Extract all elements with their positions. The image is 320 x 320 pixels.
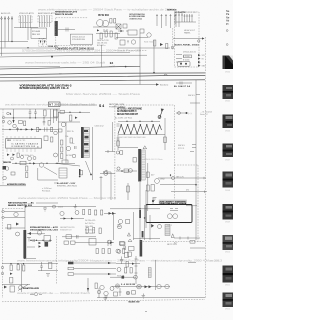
- box: [10, 286, 15, 292]
- svg-text:Fernbed.: Fernbed.: [42, 190, 51, 193]
- svg-text:IC DEFLECTION 103: IC DEFLECTION 103: [11, 146, 36, 148]
- box comp2: [54, 110, 59, 117]
- comp box: [44, 236, 51, 242]
- photo 7: [223, 235, 234, 254]
- bus line 5: [0, 75, 205, 77]
- vert x150: [149, 215, 151, 240]
- tick y262: [188, 262, 196, 264]
- box: [126, 219, 130, 223]
- transistor Q5: [61, 122, 65, 126]
- wire y218.5: [60, 218, 84, 220]
- section left col bits: [117, 124, 120, 126]
- vert x140: [139, 182, 141, 240]
- IC box IC201: [128, 30, 137, 35]
- photo 8: [223, 266, 234, 287]
- tick marks: [135, 259, 138, 273]
- resistor R16: [115, 33, 117, 39]
- wire bus: [93, 26, 120, 28]
- transistor Q6: [66, 146, 70, 150]
- T602 winding: [142, 150, 146, 180]
- bits around T604: [117, 239, 132, 253]
- wire y238: [174, 237, 200, 240]
- comp phi: [97, 288, 100, 298]
- cap C2 + diode: [34, 109, 37, 118]
- diode D201: [118, 30, 124, 32]
- section line upper: [55, 104, 97, 106]
- svg-text:CHASSIS 29504: CHASSIS 29504: [129, 18, 143, 21]
- resistor R12: [114, 19, 116, 24]
- box IC: [89, 239, 96, 246]
- connector circle: [171, 46, 174, 49]
- junction dot: [25, 206, 27, 208]
- ground pair: [142, 294, 146, 299]
- wire y118: [5, 117, 58, 119]
- svg-text:29508: 29508: [225, 190, 230, 192]
- transistor Q9: [14, 212, 18, 216]
- diode pair D613 D614: [109, 212, 116, 215]
- vertical x118: [117, 135, 119, 151]
- transistor: [100, 285, 104, 289]
- wire bottom row: [134, 238, 161, 240]
- vert x13.5: [13, 109, 15, 123]
- vert x113.5: [113, 214, 115, 240]
- cluster small: [59, 129, 63, 132]
- resistor R11: [110, 19, 112, 24]
- svg-text:BL 364/07 3A: BL 364/07 3A: [174, 85, 190, 88]
- diode D2: [31, 128, 34, 130]
- tick y151: [190, 151, 194, 153]
- IC pins bottom: [7, 148, 35, 152]
- svg-text:Seite 12: Seite 12: [200, 113, 208, 116]
- svg-text:BASIS-PANEL 29504: BASIS-PANEL 29504: [175, 44, 200, 47]
- svg-text:IC 6A7890 TDA3653: IC 6A7890 TDA3653: [11, 143, 39, 146]
- delta small: [127, 233, 130, 236]
- photo 2: [223, 85, 234, 103]
- vert x128: [127, 183, 129, 200]
- wire y178: [158, 177, 177, 179]
- connector circles left: [2, 116, 4, 118]
- svg-text:5705/3te0500e0a0er/296-6 0540/: 5705/3te0500e0a0er/296-6 0540/ElKonTaKT …: [22, 49, 142, 52]
- bus line 2: [0, 55, 147, 57]
- svg-text:29504: 29504: [225, 72, 230, 74]
- comps: [108, 240, 111, 246]
- box right of IC: [44, 136, 48, 141]
- res stack: [61, 140, 63, 145]
- dark bit on wire: [122, 276, 125, 279]
- transformer T601 winding: [84, 128, 90, 158]
- svg-text:29504-102.04: 29504-102.04: [72, 37, 86, 39]
- box comp: [132, 291, 136, 294]
- svg-text:29507: 29507: [225, 160, 230, 162]
- bus line 3: [0, 67, 140, 70]
- svg-text:R612 1k: R612 1k: [67, 131, 74, 133]
- wire from box: [186, 205, 197, 207]
- transistor Q601: [60, 211, 64, 215]
- ground sym: [74, 204, 77, 209]
- svg-text:Mon 2013: Mon 2013: [210, 260, 220, 262]
- wire from bar bottom: [25, 257, 36, 259]
- junction dots: [30, 240, 50, 241]
- wire stub: [176, 55, 182, 63]
- transformer T603 core dark: [23, 230, 26, 259]
- vertical wires left of transformer: [59, 112, 67, 163]
- svg-text:Monitor-Service 29504 — Stadt.: Monitor-Service 29504 — Stadt.Pass: [66, 93, 141, 96]
- wire y286.6 mid: [112, 286, 170, 288]
- res x18: [17, 265, 19, 271]
- diode chain zigzag: [118, 125, 162, 134]
- component with dot: [152, 198, 154, 205]
- svg-text:www.manualslib.de — 0910 Ford: www.manualslib.de — 0910 Ford Fach: [17, 292, 91, 295]
- svg-text:29506: 29506: [225, 131, 230, 133]
- wire hop: [164, 74, 167, 76]
- IC pins top: [7, 136, 35, 139]
- diode D611: [64, 217, 67, 219]
- dots on y121: [126, 121, 152, 122]
- section left dashed border: [114, 105, 116, 200]
- svg-text:29509: 29509: [225, 222, 230, 224]
- cap C1: [29, 109, 32, 118]
- diode: [10, 273, 13, 275]
- wire top: [36, 202, 58, 204]
- svg-text:29512: 29512: [225, 309, 230, 311]
- box on wire: [66, 235, 72, 239]
- svg-text:35 W 010: 35 W 010: [98, 13, 110, 17]
- svg-text:PANEL: PANEL: [184, 32, 192, 35]
- svg-text:AUDIO-PL: AUDIO-PL: [1, 12, 12, 15]
- dark box comp: [45, 242, 49, 247]
- box comp2: [128, 252, 132, 256]
- extra cap: [75, 146, 77, 149]
- res row: [96, 249, 98, 254]
- diode dark: [4, 286, 7, 289]
- switch box S601: [146, 205, 192, 223]
- wire y240 row: [30, 239, 52, 241]
- vertical x165: [164, 118, 166, 150]
- dashed mains wire: [140, 241, 205, 243]
- svg-text:5: 5: [170, 175, 171, 177]
- svg-text:DEGAUSSING COIL L601: DEGAUSSING COIL L601: [30, 229, 59, 232]
- wire with arrow: [173, 37, 205, 42]
- top row cap: [124, 246, 126, 250]
- circle on wire277: [134, 275, 138, 279]
- wires from pins down: [0, 22, 50, 56]
- switch contact marks: [170, 209, 178, 211]
- box R201: [140, 29, 144, 33]
- svg-text:R204 T202: R204 T202: [144, 42, 153, 44]
- spark gap F601: [158, 109, 164, 119]
- stub right: [27, 238, 35, 248]
- diode dark pair: [145, 285, 152, 288]
- ground sym: [127, 41, 129, 43]
- row box: [19, 121, 23, 124]
- svg-text:1k 220u 47k: 1k 220u 47k: [85, 220, 95, 222]
- vert x133.5: [133, 212, 135, 240]
- wires upper mid board: [116, 31, 170, 48]
- junction dots bus: [11, 41, 53, 58]
- wire y191.5: [171, 191, 207, 193]
- res on chain: [147, 172, 150, 178]
- transistor Q602: [75, 211, 79, 215]
- circle comp right: [108, 240, 112, 244]
- res vert: [126, 262, 128, 268]
- svg-text:Bordnetz: Bordnetz: [160, 84, 168, 87]
- svg-text:4u7 2k2 1n: 4u7 2k2 1n: [85, 223, 94, 225]
- svg-text:29511: 29511: [225, 285, 230, 287]
- top row box: [129, 247, 135, 251]
- tick: [54, 182, 58, 184]
- wire y122: [58, 121, 80, 123]
- comp: [8, 225, 11, 230]
- triangle top: [143, 146, 147, 149]
- small box connector: [62, 160, 68, 163]
- bus line 3b: [0, 66, 60, 68]
- box outline right: [38, 168, 58, 180]
- ground: [153, 198, 157, 201]
- section dashed right: [173, 105, 175, 200]
- board dashed right edge: [56, 236, 58, 284]
- wire main: [26, 206, 96, 208]
- svg-text:FERNBEDIENUNGSPLATTE: FERNBEDIENUNGSPLATTE: [55, 11, 77, 14]
- svg-text:29505: 29505: [225, 101, 230, 103]
- svg-text:(→): (→): [188, 113, 192, 115]
- res2: [130, 268, 132, 274]
- svg-text:S 4: S 4: [99, 104, 104, 108]
- dark seg on x140: [139, 210, 141, 218]
- box on wire: [20, 161, 26, 165]
- wire y277: [110, 276, 136, 278]
- cap: [77, 235, 79, 239]
- triangle comp: [103, 170, 111, 174]
- arrow comp: [12, 120, 14, 123]
- board dashed top edge: [2, 208, 24, 210]
- svg-text:D603: D603: [58, 207, 64, 209]
- mains highlight band: [159, 200, 187, 205]
- vert x120: [119, 288, 122, 296]
- svg-text:www.freeservicemanuals.info —: www.freeservicemanuals.info — 295 04 Sta…: [25, 62, 106, 65]
- section dashed top: [115, 104, 174, 106]
- transformer T1 core: [55, 21, 58, 36]
- vertical wire x101: [101, 45, 103, 67]
- res box on x165: [164, 137, 167, 143]
- res on chain2: [147, 185, 150, 191]
- stub: [105, 150, 115, 153]
- svg-text:REL 101: REL 101: [32, 34, 41, 36]
- hatched res: [148, 268, 151, 278]
- resistor R14: [105, 31, 107, 37]
- transistor Q3: [39, 163, 43, 167]
- pin circle5: [170, 175, 175, 180]
- svg-text:NT 202: NT 202: [49, 105, 60, 107]
- svg-text:ENTMAGNETISIERUNG — AUTO: ENTMAGNETISIERUNG — AUTO: [30, 226, 58, 229]
- vert x136: [135, 256, 137, 284]
- vertical wire x196: [195, 80, 197, 240]
- svg-text:E4: E4: [110, 61, 114, 65]
- comp small: [190, 241, 195, 244]
- comp bits: [11, 172, 15, 175]
- component in right board: [178, 62, 191, 67]
- photo 3: [223, 115, 234, 133]
- wire under zigzag: [118, 134, 165, 136]
- section bottom line: [0, 185, 26, 187]
- vert wire x101: [100, 176, 103, 200]
- tick: [145, 311, 147, 313]
- diode D6: [75, 117, 78, 119]
- wire to bord with arrow: [100, 83, 159, 85]
- wire y213.4: [104, 212, 116, 214]
- circle comp: [53, 205, 56, 208]
- pins row mid: [156, 14, 176, 28]
- component row above wire: [176, 82, 192, 85]
- section border right dashed: [197, 165, 199, 242]
- transformer T601 core: [81, 127, 84, 158]
- svg-text:35GB 010: 35GB 010: [48, 46, 59, 48]
- res R612: [89, 210, 91, 215]
- extra dots wire163: [15, 163, 57, 164]
- svg-text:SW 0.5: SW 0.5: [188, 95, 196, 97]
- component xbox: [116, 24, 121, 29]
- diode dark: [16, 223, 19, 226]
- row res2: [48, 121, 50, 126]
- lamp X: [137, 284, 142, 289]
- chain right of T602: [147, 163, 149, 211]
- pin circle 1: [7, 112, 11, 115]
- right board outline: [174, 12, 199, 67]
- bus line 6: [0, 80, 205, 81]
- plug P2: [43, 39, 46, 47]
- svg-text:= 1 2: = 1 2: [168, 225, 172, 227]
- box R202: [120, 40, 125, 45]
- photo 6: [223, 204, 234, 224]
- svg-text:REMOTE BOARD: REMOTE BOARD: [55, 13, 73, 16]
- photo 4: [223, 144, 234, 162]
- svg-text:C516 2n2: C516 2n2: [95, 126, 105, 128]
- switch circle B: [173, 214, 178, 219]
- NT label box: [49, 102, 61, 107]
- sub board box: [70, 34, 92, 44]
- board left dashed edge: [2, 109, 4, 185]
- diode D5: [33, 162, 36, 164]
- row cap: [43, 119, 46, 125]
- wire y270.7: [38, 270, 58, 272]
- vert x88 arrow: [87, 278, 89, 292]
- marks near border: [117, 138, 120, 140]
- res: [123, 249, 125, 254]
- IC1 block: [6, 139, 42, 149]
- switch circle A: [167, 214, 172, 219]
- svg-text:INTERFACE(BOARD) 195/175 I 6L: INTERFACE(BOARD) 195/175 I 6L-3: [20, 87, 70, 90]
- comp box: [80, 171, 83, 175]
- right pins: [175, 13, 193, 27]
- resistor R204: [166, 44, 168, 49]
- svg-text:NETZSCHALTER — AC: NETZSCHALTER — AC: [8, 201, 35, 204]
- stub y103: [190, 102, 200, 104]
- extra res: [70, 138, 72, 143]
- wire y236.8: [62, 236, 96, 238]
- vertical dashed x205: [205, 37, 207, 298]
- svg-text:BC548 1n: BC548 1n: [97, 45, 105, 47]
- multi pin block: [59, 168, 67, 178]
- junction dots y118: [13, 117, 45, 118]
- left connector circles: [2, 210, 4, 212]
- section border bottom dashed: [174, 164, 198, 166]
- wire y33.5: [96, 33, 120, 35]
- photo 5: [223, 172, 234, 193]
- box comp: [49, 263, 52, 269]
- svg-text:10k 220k: 10k 220k: [85, 233, 93, 235]
- svg-text:2.4 B222M: 2.4 B222M: [121, 283, 135, 286]
- resistor R15: [110, 31, 112, 37]
- plug P1: [39, 39, 42, 47]
- wire: [27, 233, 45, 235]
- row res: [24, 121, 26, 126]
- extra circle: [72, 154, 76, 158]
- cap row129: [45, 127, 48, 131]
- res: [125, 268, 127, 274]
- svg-text:D601 D602 D603 D604 D605 D606: D601 D602 D603 D604 D605 D606: [119, 137, 146, 139]
- circle comp: [116, 249, 120, 253]
- wire y163: [12, 162, 75, 164]
- small marks: [118, 225, 121, 227]
- diode: [132, 263, 135, 265]
- relay box K1: [31, 28, 46, 38]
- svg-text:B+ ADJUST • 103V: B+ ADJUST • 103V: [57, 182, 76, 185]
- svg-text:www.elektrotanya.com 29504 Sta: www.elektrotanya.com 29504 Stadt.Pass — …: [18, 197, 117, 200]
- res R611: [83, 210, 85, 215]
- connector block J3: [38, 16, 52, 23]
- circle comp r2: [165, 284, 169, 288]
- svg-text:B-Y: B-Y: [174, 243, 178, 245]
- zigzag dots: [121, 124, 158, 134]
- transistor Q8: [155, 179, 160, 184]
- transformer T602 core: [138, 149, 141, 182]
- box comp: [120, 242, 125, 245]
- junction dots y129: [9, 129, 40, 130]
- res stack3: [61, 154, 63, 159]
- row under y118: transistor: [8, 121, 12, 125]
- transistor pair: [118, 219, 122, 223]
- remote board outline: [56, 18, 93, 46]
- wire y147.7: [118, 147, 138, 149]
- cap cluster right: [40, 262, 43, 271]
- delta sym: [171, 234, 174, 238]
- motor M1 circles: [97, 20, 104, 27]
- res row3: [108, 249, 110, 254]
- diode D202: [160, 43, 163, 46]
- wire y263.7: [116, 263, 140, 265]
- section top line: [0, 108, 60, 110]
- transistor Q1: [28, 157, 32, 161]
- svg-text:ABSTIMM-PLATTE: ABSTIMM-PLATTE: [38, 12, 56, 15]
- junction dot: [125, 66, 127, 68]
- striped comp: [165, 225, 170, 236]
- comp cluster: [125, 253, 129, 258]
- junction dot: [153, 72, 155, 74]
- ground sym: [43, 207, 47, 211]
- res row2: [102, 249, 104, 254]
- border line y297: [97, 296, 205, 298]
- svg-text:47k: 47k: [186, 190, 189, 192]
- res R617: [99, 228, 101, 234]
- vert x144.5: [144, 205, 146, 240]
- comp cluster left: [3, 166, 9, 170]
- wire y263.5: [2, 263, 58, 265]
- box comp: [44, 110, 47, 116]
- small circles under IC: [11, 156, 37, 161]
- svg-text:29504-102.13 Netz: 29504-102.13 Netz: [144, 158, 163, 161]
- svg-text:VIDEO-PLATTE: VIDEO-PLATTE: [19, 12, 34, 15]
- res R1: [37, 127, 39, 131]
- vertical wire x108: [110, 172, 112, 200]
